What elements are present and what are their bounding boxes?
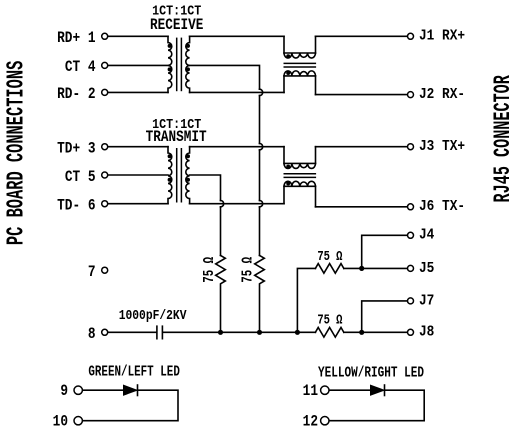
svg-text:7: 7 xyxy=(88,264,96,282)
resistor R1 75 ohm (vertical, from T2 CT) xyxy=(216,255,226,332)
J6 circle xyxy=(408,204,414,210)
hop over at (259.5,146.7) xyxy=(260,144,263,150)
pin 11 label xyxy=(303,383,319,401)
left side title: PC BOARD CONNECTIONS xyxy=(2,61,29,245)
pin 12 circle xyxy=(321,417,329,425)
J5 label xyxy=(419,261,434,277)
wire T1 secondary top to choke L1 xyxy=(190,35,284,37)
pin 3 circle xyxy=(102,144,108,150)
wire C1 to bottom net xyxy=(163,331,315,333)
svg-text:75 Ω: 75 Ω xyxy=(239,257,256,283)
wire pin5 to T2 primary center tap xyxy=(108,174,168,176)
J3 label TX+ xyxy=(419,140,465,156)
L1 phase dot top xyxy=(286,54,290,58)
wire pin9 to LED D1 xyxy=(83,389,124,391)
R4 value label 75 Ohm xyxy=(317,312,342,328)
pin 4 label CT xyxy=(65,59,96,77)
junction dot J4/J5 branch xyxy=(359,266,364,271)
L1 top winding baseline xyxy=(284,52,316,54)
svg-text:CT 5: CT 5 xyxy=(65,169,96,187)
svg-text:TRANSMIT: TRANSMIT xyxy=(146,129,207,147)
wire T1 secondary CT right then down to R2 (with hops) xyxy=(190,65,260,255)
junction dot J7/J8 branch xyxy=(359,330,364,335)
J1 label RX+ xyxy=(419,29,465,45)
wire pin11 to LED D2 xyxy=(329,389,370,391)
pin 3 label TD+ xyxy=(57,140,95,158)
wire R4 to J8 xyxy=(344,331,407,333)
pin 12 label xyxy=(303,414,318,430)
wire pin1 to T1 primary top xyxy=(108,35,168,37)
pin 9 label xyxy=(60,383,68,401)
T2 primary phase dot top xyxy=(168,154,172,158)
junction dot at riser to R3 xyxy=(295,330,300,335)
J2 circle xyxy=(408,92,414,98)
svg-text:J5: J5 xyxy=(419,261,434,277)
R3 value label 75 Ohm xyxy=(317,249,342,265)
label: 1CT:1CT (transmit) xyxy=(152,116,201,132)
pin 8 circle xyxy=(102,329,108,335)
transformer T1 secondary winding (right) xyxy=(186,36,190,92)
pin 4 circle xyxy=(102,62,108,68)
svg-text:J2 RX-: J2 RX- xyxy=(419,87,465,103)
label: YELLOW/RIGHT LED xyxy=(318,364,424,381)
svg-text:J3 TX+: J3 TX+ xyxy=(419,140,465,156)
pin 1 label RD+ xyxy=(57,30,96,48)
svg-text:9: 9 xyxy=(60,383,68,401)
transformer T2 core xyxy=(177,148,182,203)
J6 label TX- xyxy=(419,200,465,216)
common mode choke L1 bottom winding xyxy=(284,71,316,95)
junction dot at R1 bottom xyxy=(218,330,223,335)
junction dot at R2 bottom xyxy=(257,330,262,335)
T2 primary phase dot mid xyxy=(168,178,172,182)
right side title: RJ45 CONNECTOR xyxy=(490,75,516,202)
svg-text:J4: J4 xyxy=(419,228,434,244)
J2 label RX- xyxy=(419,87,465,103)
hop over at (220.5,203.7) xyxy=(221,201,224,207)
svg-text:RJ45 CONNECTOR: RJ45 CONNECTOR xyxy=(490,75,516,202)
wire pin8 to capacitor C1 xyxy=(108,331,156,333)
T2 secondary phase dot top xyxy=(186,154,190,158)
LED D2 (yellow/right) triangle xyxy=(371,385,385,395)
wire pin2 to T1 primary bottom xyxy=(108,91,168,93)
wire T2 secondary top to choke L2 xyxy=(190,146,284,148)
J8 label xyxy=(419,325,434,341)
pin 7 label xyxy=(88,264,96,282)
pin 1 circle xyxy=(102,33,108,39)
J4 circle xyxy=(408,232,414,238)
pin 5 label CT xyxy=(65,169,96,187)
wire D1 to pin 10 loop xyxy=(83,390,178,421)
R1 value label 75 Ohm (rotated) xyxy=(201,257,218,283)
svg-text:75 Ω: 75 Ω xyxy=(317,249,342,265)
D1 cathode bar xyxy=(137,385,139,396)
wire pin4 to T1 primary center tap xyxy=(108,64,168,66)
L1 phase dot bottom xyxy=(286,71,290,75)
svg-text:J6 TX-: J6 TX- xyxy=(419,200,465,216)
L2 bottom winding baseline xyxy=(284,185,316,187)
svg-text:11: 11 xyxy=(303,383,319,401)
svg-text:75 Ω: 75 Ω xyxy=(201,257,218,283)
C1 value label 1000pF/2KV xyxy=(119,308,187,323)
pin 2 label RD- xyxy=(57,86,95,104)
capacitor C1 1000pF/2KV plates xyxy=(157,326,163,339)
L1 bottom winding baseline xyxy=(284,75,316,77)
wire T2 secondary bottom to choke L2 xyxy=(190,203,284,205)
resistor R3 75 ohm (horizontal, J5 row) xyxy=(315,264,343,274)
svg-text:TD- 6: TD- 6 xyxy=(57,197,95,215)
svg-text:1000pF/2KV: 1000pF/2KV xyxy=(119,308,187,323)
label: GREEN/LEFT LED xyxy=(88,363,180,380)
wire pin3 to T2 primary top xyxy=(108,146,168,148)
svg-text:RECEIVE: RECEIVE xyxy=(150,17,204,35)
svg-text:RD- 2: RD- 2 xyxy=(57,86,95,104)
svg-text:GREEN/LEFT LED: GREEN/LEFT LED xyxy=(88,363,180,380)
T1 secondary phase dot mid xyxy=(186,67,190,71)
hop over at (259.5,203.7) xyxy=(260,201,263,207)
common mode choke L2 top winding xyxy=(284,147,316,169)
svg-text:12: 12 xyxy=(303,414,318,430)
choke L1 core xyxy=(284,63,317,67)
wire choke L1 to J2 xyxy=(316,94,408,96)
pin 2 circle xyxy=(102,89,108,95)
label: TRANSMIT xyxy=(146,129,207,147)
svg-text:75 Ω: 75 Ω xyxy=(317,312,342,328)
svg-text:PC BOARD CONNECTIONS: PC BOARD CONNECTIONS xyxy=(2,61,29,245)
wire T2 secondary CT right then down to R1 (with hop) xyxy=(190,175,221,255)
pin 9 circle xyxy=(74,386,82,394)
wire choke L2 to J6 xyxy=(316,206,408,208)
pin 6 circle xyxy=(102,201,108,207)
L2 top winding baseline xyxy=(284,162,316,164)
svg-text:CT 4: CT 4 xyxy=(65,59,96,77)
J4 label xyxy=(419,228,434,244)
wire R3 to J5 xyxy=(344,267,407,269)
svg-text:RD+ 1: RD+ 1 xyxy=(57,30,96,48)
wire J7 branch xyxy=(362,301,407,332)
transformer T2 primary winding (left) xyxy=(168,147,172,204)
riser from bottom net up to R3 row xyxy=(297,268,315,332)
pin 10 label xyxy=(53,414,68,430)
J7 circle xyxy=(408,298,414,304)
pin 6 label TD- xyxy=(57,197,95,215)
resistor R2 75 ohm (vertical, from T1 CT) xyxy=(255,255,265,332)
svg-text:J7: J7 xyxy=(419,294,434,310)
label: 1CT:1CT (receive) xyxy=(152,3,201,19)
J5 circle xyxy=(408,265,414,271)
T1 primary phase dot mid xyxy=(168,67,172,71)
R2 value label 75 Ohm (rotated) xyxy=(239,257,256,283)
T1 primary phase dot top xyxy=(168,44,172,48)
wire J4 branch xyxy=(362,235,407,268)
J8 circle xyxy=(408,329,414,335)
pin 5 circle xyxy=(102,172,108,178)
pin 8 label xyxy=(88,326,96,344)
choke L2 core xyxy=(284,174,317,178)
svg-text:10: 10 xyxy=(53,414,68,430)
J3 circle xyxy=(408,144,414,150)
pin 11 circle xyxy=(321,386,329,394)
pin 7 circle (unconnected) xyxy=(102,267,108,273)
hop over at (259.5,92.4) xyxy=(260,89,263,95)
wire choke L1 to J1 xyxy=(316,35,408,37)
svg-text:TD+ 3: TD+ 3 xyxy=(57,140,95,158)
L2 phase dot top xyxy=(286,165,290,169)
svg-text:8: 8 xyxy=(88,326,96,344)
common mode choke L2 bottom winding xyxy=(284,181,316,207)
wire choke L2 to J3 xyxy=(316,146,408,148)
pin 10 circle xyxy=(74,417,82,425)
label: RECEIVE xyxy=(150,17,204,35)
svg-text:J8: J8 xyxy=(419,325,434,341)
wire T1 secondary bottom to choke L1 (node crossed by vertical) xyxy=(190,91,284,93)
T2 secondary phase dot mid xyxy=(186,178,190,182)
wire pin6 to T2 primary bottom xyxy=(108,203,168,205)
transformer T1 core xyxy=(177,38,182,92)
common mode choke L1 top winding xyxy=(284,36,316,58)
LED D1 (green/left) triangle xyxy=(124,385,138,395)
wire D2 to pin 12 loop xyxy=(329,390,424,421)
transformer T2 secondary winding (right) xyxy=(186,147,190,204)
transformer T1 primary winding (left) xyxy=(168,36,172,92)
D2 cathode bar xyxy=(384,385,386,396)
L2 phase dot bottom xyxy=(286,181,290,185)
svg-text:J1 RX+: J1 RX+ xyxy=(419,29,465,45)
J1 circle xyxy=(408,33,414,39)
T1 secondary phase dot top xyxy=(186,44,190,48)
resistor R4 75 ohm (horizontal, bottom net) xyxy=(315,328,343,338)
J7 label xyxy=(419,294,434,310)
svg-text:YELLOW/RIGHT LED: YELLOW/RIGHT LED xyxy=(318,364,424,381)
